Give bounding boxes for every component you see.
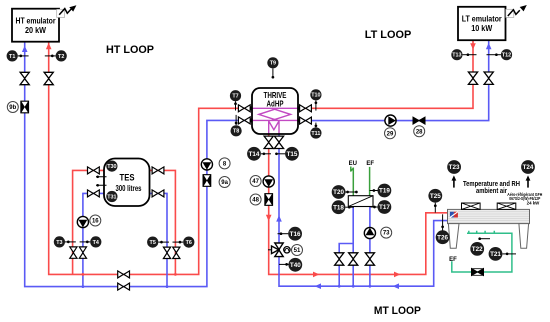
svg-text:T24: T24	[523, 164, 534, 171]
svg-text:T5: T5	[150, 240, 156, 246]
svg-text:9b: 9b	[9, 105, 16, 111]
svg-text:29: 29	[387, 131, 394, 137]
svg-text:T40: T40	[290, 262, 301, 269]
svg-text:T2: T2	[58, 54, 64, 60]
svg-text:T22: T22	[472, 246, 483, 253]
svg-text:T7: T7	[232, 94, 238, 100]
svg-text:16: 16	[92, 219, 99, 225]
svg-text:T9: T9	[270, 61, 276, 67]
svg-text:MT LOOP: MT LOOP	[374, 305, 421, 317]
svg-text:20 kW: 20 kW	[25, 26, 46, 35]
svg-text:T11: T11	[311, 131, 320, 137]
svg-text:T3: T3	[56, 240, 62, 246]
svg-text:ambient air: ambient air	[476, 186, 507, 195]
svg-text:EU: EU	[349, 161, 357, 167]
svg-text:T18: T18	[333, 204, 344, 211]
svg-text:EF: EF	[449, 257, 457, 263]
svg-text:T8: T8	[233, 129, 239, 135]
svg-text:300 litres: 300 litres	[116, 184, 143, 193]
svg-text:T20: T20	[333, 189, 344, 196]
svg-text:AdHP: AdHP	[267, 99, 284, 109]
svg-text:EF: EF	[366, 161, 374, 167]
svg-text:T23: T23	[449, 164, 460, 171]
svg-text:T19: T19	[379, 188, 390, 195]
svg-text:LT emulator: LT emulator	[462, 14, 502, 23]
svg-text:9a: 9a	[221, 180, 228, 186]
svg-text:T17: T17	[379, 204, 390, 211]
svg-text:T4: T4	[93, 240, 99, 246]
svg-text:48: 48	[252, 198, 259, 204]
svg-text:LT LOOP: LT LOOP	[365, 29, 412, 41]
svg-text:73: 73	[383, 231, 390, 237]
svg-text:T10: T10	[311, 93, 320, 99]
svg-text:T13: T13	[452, 53, 461, 59]
svg-text:T30: T30	[107, 164, 116, 170]
svg-text:T15: T15	[287, 151, 298, 158]
svg-text:T16: T16	[290, 231, 301, 238]
svg-text:T26: T26	[437, 234, 448, 241]
svg-text:47: 47	[252, 179, 259, 185]
svg-text:10 kW: 10 kW	[471, 24, 492, 33]
svg-text:T6: T6	[186, 240, 192, 246]
svg-text:T25: T25	[430, 193, 441, 200]
svg-text:T1: T1	[9, 54, 15, 60]
svg-text:T31: T31	[107, 194, 116, 200]
svg-text:HT LOOP: HT LOOP	[106, 44, 154, 56]
svg-text:T21: T21	[490, 251, 501, 258]
svg-text:TES: TES	[120, 173, 135, 183]
svg-text:28: 28	[416, 129, 423, 135]
svg-text:24 kW: 24 kW	[527, 200, 541, 205]
svg-text:51: 51	[294, 248, 301, 254]
svg-text:T12: T12	[502, 53, 511, 59]
svg-text:T14: T14	[249, 151, 260, 158]
svg-text:HT emulator: HT emulator	[16, 16, 56, 25]
